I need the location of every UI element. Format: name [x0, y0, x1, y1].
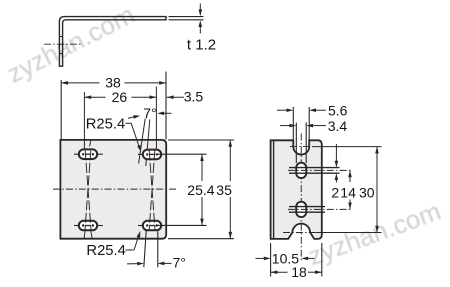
svg-text:18: 18 [291, 264, 307, 280]
side view plate outline with notches [271, 140, 322, 239]
lower slot top edge line [289, 206, 325, 208]
extension line right slot center (26) [155, 87, 157, 161]
dimension 26 line [84, 95, 156, 99]
arc trace tails below bottom-left slot [84, 230, 92, 238]
lower slot centerline [288, 208, 353, 210]
L-bracket bent profile (side view, top-left) [59, 17, 166, 67]
dimension 2 arrows [335, 144, 339, 183]
slot edge tick lower on vertical leg [59, 53, 62, 55]
extension line top of sheet [169, 16, 204, 18]
svg-text:R25.4: R25.4 [86, 243, 126, 259]
center stub right of bottom-left slot [98, 225, 103, 227]
7 deg tilted line A (top) [139, 119, 146, 164]
slot bottom-left (obround) [79, 221, 97, 231]
extension line side plate left (10.5/18) [270, 243, 272, 277]
extension line left slot center (26) [83, 92, 85, 154]
7 deg bottom arrow right [158, 262, 172, 266]
center stub left of top-right slot [138, 153, 142, 155]
arc trace right column line 2 [149, 151, 155, 230]
7 deg bottom arrow left [127, 262, 144, 266]
center stub left of bottom-right slot [138, 225, 142, 227]
top notch center line [290, 146, 382, 148]
leader R25.4 top [126, 123, 142, 152]
dimension 35 line [229, 140, 233, 239]
center stub left of bottom-left slot [74, 225, 78, 227]
svg-text:R25.4: R25.4 [86, 116, 126, 132]
extension line bottom slot center (25.4) [156, 224, 207, 226]
dimension 14 line [348, 170, 352, 209]
extension line right edge (38/3.5) [165, 72, 167, 140]
7 deg tilted line B (top) [146, 120, 150, 167]
svg-text:t 1.2: t 1.2 [187, 36, 216, 53]
centerline of leg slot (dash-dot) [44, 43, 81, 45]
thickness dim upper arrow [199, 4, 203, 17]
watermark zyzhan.com lower-right [304, 196, 445, 273]
upper slot top edge line (2mm) [289, 167, 340, 169]
svg-text:14: 14 [340, 185, 356, 201]
vertical reference line (bottom angle) [157, 232, 159, 268]
extension line plate bottom edge (35) [168, 238, 234, 240]
dimension 3.5 arrow [167, 95, 184, 99]
front view horizontal centerline [53, 188, 176, 190]
dimension 25.4 line [200, 154, 204, 225]
extension line top slot center (25.4) [156, 153, 207, 155]
dimension 5.6 arrows [277, 108, 326, 112]
side view lower slot [296, 202, 306, 217]
watermark zyzhan.com upper-left [2, 0, 140, 90]
front view plate 38x35 [60, 140, 166, 239]
arc trace right column line 1 [149, 151, 155, 230]
extension line bottom of sheet [169, 19, 204, 21]
svg-text:2: 2 [331, 185, 339, 201]
svg-text:35: 35 [216, 182, 232, 198]
dimension 18 line [271, 270, 322, 274]
svg-text:5.6: 5.6 [328, 103, 348, 119]
dimension 30 line [375, 147, 379, 233]
upper slot bottom edge line (2mm) [289, 172, 340, 174]
extension lines 5.6 [293, 107, 309, 140]
dimension 38 line [61, 81, 166, 85]
svg-text:26: 26 [112, 89, 128, 105]
7 deg top arrow right [157, 112, 171, 116]
svg-text:25.4: 25.4 [187, 182, 214, 198]
bend line (inner left edge) [273, 141, 275, 239]
slot edge tick upper on vertical leg [59, 36, 62, 38]
arc trace left column line 1 [85, 151, 91, 230]
svg-text:7°: 7° [143, 105, 156, 121]
thickness dim lower arrow [199, 20, 203, 33]
side view vertical centerline [300, 134, 302, 263]
bottom notch center line [283, 232, 382, 234]
extension line left edge (38) [60, 80, 62, 140]
extension lines 3.4 [296, 123, 306, 164]
leader R25.4 bottom [126, 231, 141, 250]
extension line side plate right (18) [321, 243, 323, 277]
svg-text:3.4: 3.4 [328, 118, 348, 134]
extension line plate top edge (35) [168, 139, 234, 141]
upper slot centerline [288, 169, 353, 171]
slot top-left (obround) [79, 149, 97, 159]
svg-text:7°: 7° [173, 254, 186, 270]
center stub right of top-left slot [98, 153, 103, 155]
svg-text:30: 30 [359, 185, 375, 201]
7 deg top arrow left [128, 115, 140, 119]
svg-text:38: 38 [105, 75, 121, 91]
side view upper slot [296, 163, 306, 178]
svg-text:3.5: 3.5 [184, 89, 204, 105]
dimension 3.4 arrows [280, 124, 326, 128]
arc trace left column line 2 [85, 151, 91, 230]
dimension 10.5 arrows [256, 257, 315, 261]
center stub left of top-left slot [74, 153, 78, 155]
7 deg tilted line (bottom) [144, 231, 146, 267]
lower slot bottom edge line [289, 211, 325, 213]
slot bottom-right (obround) [143, 221, 161, 231]
arc trace tail above top-left slot [90, 140, 91, 147]
slot top-right (obround) [143, 150, 161, 160]
